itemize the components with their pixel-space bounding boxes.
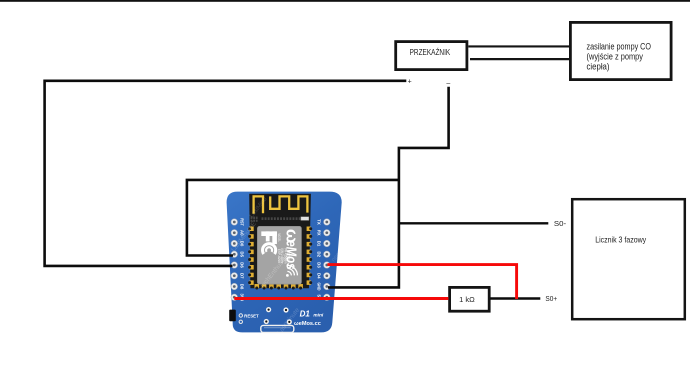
micro USB connector J1: [261, 325, 294, 332]
pin D7: [231, 272, 238, 279]
red wire 3V3 to resistor R1: [234, 297, 448, 300]
svg-text:1 kΩ: 1 kΩ: [459, 295, 475, 304]
svg-text:zasilanie pompy CO: zasilanie pompy CO: [587, 42, 652, 52]
pin D2: [324, 251, 331, 258]
svg-text:TX: TX: [317, 219, 322, 225]
red wire D3 to S0+ junction: [328, 265, 517, 299]
wire D6 to relay plus terminal: [45, 81, 407, 266]
board PCB outline: [227, 192, 342, 333]
pin A0: [231, 229, 238, 236]
pin 5V: [324, 294, 331, 301]
svg-text:ciepła): ciepła): [587, 62, 610, 72]
svg-text:–: –: [446, 80, 450, 87]
svg-text:RESET: RESET: [244, 314, 259, 319]
svg-text:ωeMos.cc: ωeMos.cc: [294, 321, 321, 327]
svg-text:(wyjście z pompy: (wyjście z pompy: [587, 52, 644, 62]
pin D1: [324, 240, 331, 247]
crystal component: [301, 217, 309, 221]
relay K1 PRZEKAZNIK box: [396, 42, 467, 70]
module pad row under antenna: [251, 217, 301, 222]
svg-text:D1: D1: [317, 241, 322, 247]
pin D6: [231, 262, 238, 269]
pin GND: [324, 283, 331, 290]
shield label print (rotated): [261, 229, 301, 277]
pin D3: [324, 262, 331, 269]
module shield label: [257, 226, 301, 284]
pin D8: [231, 283, 238, 290]
pin D5: [231, 251, 238, 258]
svg-text:D2: D2: [317, 252, 322, 258]
svg-text:S0-: S0-: [554, 221, 567, 228]
svg-text:GND: GND: [317, 283, 322, 292]
pin RST: [231, 219, 238, 226]
svg-text:D4: D4: [317, 273, 322, 279]
module castellation pads bottom: [255, 284, 303, 290]
pin D4: [324, 272, 331, 279]
svg-text:D5: D5: [239, 252, 244, 258]
pin 3V3: [231, 294, 238, 301]
pin D0: [231, 240, 238, 247]
pin TX: [324, 219, 331, 226]
wire relay to supply lower: [470, 58, 570, 60]
ESP-8266 module Q1: [249, 194, 311, 289]
CO pump supply box (zasilanie pompy CO): [570, 22, 671, 79]
svg-text:RST: RST: [239, 218, 244, 226]
wire relay to supply upper: [468, 45, 570, 47]
module castellation pads right: [307, 227, 313, 285]
svg-text:D3: D3: [317, 262, 322, 268]
pin RX: [324, 229, 331, 236]
wire S0- from junction: [399, 222, 548, 224]
3-phase meter box (Licznik 3 fazowy): [572, 199, 685, 319]
svg-text:+: +: [408, 79, 412, 86]
svg-text:D6: D6: [239, 262, 244, 268]
reset button SW1: [229, 310, 236, 322]
svg-text:RX: RX: [317, 230, 322, 236]
svg-text:MODEL: MODEL: [277, 233, 281, 241]
module castellation pads left: [248, 227, 254, 285]
wire R1 to S0+: [490, 297, 540, 299]
svg-text:A0: A0: [239, 230, 244, 236]
svg-text:D8: D8: [239, 284, 244, 290]
antenna meander trace: [254, 196, 263, 213]
wire D5 to main vertical: [187, 180, 399, 256]
svg-text:PRZEKAŹNIK: PRZEKAŹNIK: [410, 48, 451, 57]
wire relay minus to GND pin: [328, 87, 449, 288]
mounting holes: [264, 307, 292, 325]
svg-text:S0+: S0+: [545, 296, 557, 303]
svg-text:D7: D7: [239, 273, 244, 279]
WeMos D1 mini board U1: [227, 192, 345, 337]
svg-text:D1: D1: [300, 309, 311, 318]
svg-text:D0: D0: [239, 241, 244, 247]
resistor R1 1 kOhm box: [450, 287, 490, 311]
svg-text:Licznik 3 fazowy: Licznik 3 fazowy: [595, 234, 647, 244]
svg-text:mini: mini: [313, 312, 324, 318]
